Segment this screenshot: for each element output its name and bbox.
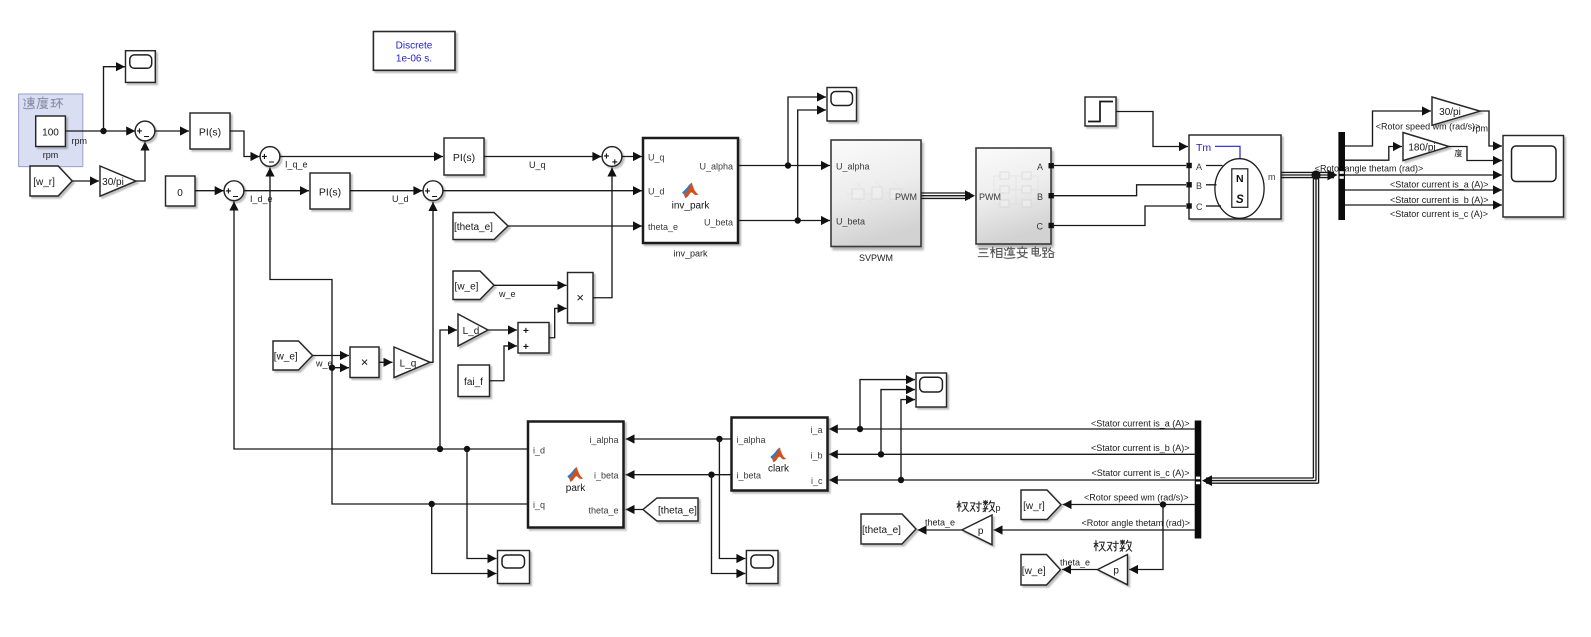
wire PI q out to sum5 (484, 156, 601, 158)
svg-text:+: + (424, 186, 430, 197)
wire is_b junction to scope3 port2 (881, 390, 915, 455)
svg-text:+: + (612, 158, 618, 169)
svg-text:theta_e: theta_e (1060, 558, 1090, 568)
inverter port square A (1049, 163, 1054, 168)
gain L_d (458, 314, 488, 346)
from tag [w_r] (30, 166, 72, 196)
svg-text:100: 100 (42, 128, 59, 139)
wire PI d out to sum4 (350, 190, 422, 192)
wire L_q up to sum4 minus input (430, 202, 433, 362)
wire junction up to scope1 (104, 67, 126, 131)
svg-text:+: + (136, 127, 142, 138)
gain p1 pole pairs (flipped) (962, 515, 992, 545)
svg-text:U_alpha: U_alpha (836, 162, 870, 172)
wire U_beta junction to scope2 (798, 110, 826, 221)
gain 180/pi (rad to deg) (1403, 133, 1449, 161)
wire bus1 thetam-meas to scope port3 (1345, 174, 1502, 176)
junction i_alpha to scope5 (716, 436, 722, 442)
wire [w_r] to gain 30/pi (72, 180, 99, 182)
svg-text:–: – (233, 191, 239, 202)
wire p2 to goto [w_e] (1062, 569, 1098, 571)
wire bus2 is_b to clark i_b (829, 453, 1195, 455)
gain p2 pole pairs (flipped) (1098, 555, 1128, 585)
svg-text:inv_park: inv_park (672, 201, 711, 212)
sum1 speed error (+-) (135, 121, 155, 142)
area frame 速度环 (speed loop panel) (19, 94, 83, 167)
svg-text:rpm: rpm (72, 136, 88, 146)
svg-text:SVPWM: SVPWM (859, 253, 893, 263)
wire [w_e] to product1 input1 (313, 355, 350, 357)
svg-text:×: × (361, 354, 369, 369)
svg-text:–: – (432, 191, 438, 202)
bus wire junction down to bus selector 2 (triple) (1312, 175, 1314, 478)
svg-text:U_beta: U_beta (836, 217, 865, 227)
wire product2 up to sum5 plus input (593, 168, 612, 298)
wire i_d junction up to gain L_d (440, 330, 457, 449)
wire gain 30/pi up to sum1 minus input (136, 142, 145, 182)
svg-text:<Stator current is_c (A)>: <Stator current is_c (A)> (1091, 468, 1189, 478)
wire fai_f to add block input2 (490, 346, 518, 381)
gain 30/pi (rad/s to rpm) (100, 166, 136, 196)
motor magnet rectangle N/S (1232, 169, 1248, 208)
svg-text:[theta_e]: [theta_e] (862, 525, 901, 536)
svg-text:w_e: w_e (498, 289, 516, 299)
wire U_alpha inv_park to SVPWM (738, 165, 830, 167)
block name 极对数 (2) (1094, 540, 1132, 551)
scope3 (current monitor) (916, 373, 947, 407)
svg-text:+: + (523, 342, 529, 353)
svg-text:i_b: i_b (810, 450, 822, 460)
wire p1 to goto [theta_e] (918, 529, 963, 531)
svg-text:inv_park: inv_park (673, 249, 708, 259)
motor rotor circle (1215, 159, 1264, 219)
svg-text:U_alpha: U_alpha (699, 162, 733, 172)
svg-text:<Rotor angle thetam (rad)>: <Rotor angle thetam (rad)> (1081, 518, 1190, 528)
wire sum5 to inv_park U_q input (622, 156, 642, 158)
svg-text:i_beta: i_beta (737, 471, 762, 481)
wire 0 to sum3 (195, 190, 224, 192)
svg-text:theta_e: theta_e (588, 505, 618, 515)
svg-text:[theta_e]: [theta_e] (658, 506, 697, 517)
wire sum4 to inv_park U_d input (443, 190, 642, 192)
svg-text:[w_r]: [w_r] (33, 177, 55, 188)
from tag [theta_e] inv_park (453, 213, 508, 240)
from tag [theta_e] park (643, 498, 698, 521)
svg-text:rpm: rpm (1473, 124, 1489, 134)
sum3 d-current error (+-) (224, 181, 244, 202)
sum2 q-current error (+-) (260, 147, 280, 168)
junction node on rpm wire (100, 128, 106, 134)
wire wm junction down to pole-pair gain p2 (1129, 505, 1163, 570)
svg-text:+: + (523, 326, 529, 337)
from tag [w_e] upper (453, 271, 494, 300)
wire park i_q feedback to sum2 (270, 168, 528, 505)
svg-text:B: B (1037, 192, 1043, 202)
wire bus1 is_a to scope port4 (1345, 189, 1502, 191)
svg-text:i_alpha: i_alpha (589, 435, 618, 445)
svg-text:C: C (1196, 202, 1203, 212)
svg-text:<Stator current is_c (A)>: <Stator current is_c (A)> (1390, 209, 1488, 219)
junction i_beta to scope5 (708, 472, 714, 478)
svg-text:N: N (1236, 173, 1244, 185)
junction wm to pole-pair gain (1160, 501, 1166, 507)
wire sum3 to PI(s) d-current controller (244, 190, 309, 192)
svg-text:U_d: U_d (648, 187, 665, 197)
svg-text:×: × (576, 290, 584, 305)
wire rpm reference to sum1 (65, 130, 135, 132)
svg-text:PI(s): PI(s) (319, 186, 341, 198)
subsystem block 三相逆变电路 (three-phase inverter) (976, 148, 1051, 244)
svg-text:clark: clark (768, 464, 790, 475)
svg-text:–: – (144, 131, 150, 142)
junction on U_alpha wire (785, 162, 791, 168)
wire bus2 wm to goto [w_r] (1063, 504, 1195, 506)
wire clark i_alpha to park (626, 438, 732, 440)
svg-text:<Rotor speed wm (rad/s)>: <Rotor speed wm (rad/s)> (1084, 493, 1189, 503)
svg-text:–: – (269, 157, 275, 168)
wire is_c junction to scope3 port3 (901, 400, 915, 480)
svg-text:i_q: i_q (533, 500, 545, 510)
wire 180/pi to scope port2 (1449, 147, 1502, 161)
svg-text:<Stator current is_b (A)>: <Stator current is_b (A)> (1091, 443, 1190, 453)
svg-text:p: p (978, 526, 984, 537)
PI controller PI(s) q-current loop (444, 138, 484, 175)
motor port square C (1186, 203, 1191, 208)
svg-text:m: m (1268, 172, 1276, 182)
physical wire B inverter to motor (1054, 185, 1186, 196)
svg-text:L_q: L_q (400, 358, 417, 369)
inverter port square C (1049, 223, 1054, 228)
wire bus2 is_a to clark i_a (829, 428, 1195, 430)
svg-text:A: A (1196, 162, 1202, 172)
step block (load torque) (1085, 97, 1116, 126)
bus selector 1 (vertical bar) (1338, 132, 1345, 220)
svg-text:PI(s): PI(s) (199, 126, 221, 138)
wire i_q junction down to scope4 port2 (432, 504, 497, 574)
wire [w_e] to product2 input1 (494, 284, 567, 286)
wire bus1 wm to gain 30/pi (right) (1345, 111, 1431, 146)
motor blue connection line (1215, 146, 1240, 159)
wire park i_d feedback to sum3 (234, 202, 528, 450)
MATLAB function block park (528, 422, 624, 528)
add block (L_d*i_d + fai_f) (518, 323, 549, 354)
svg-text:I_q_e: I_q_e (285, 160, 308, 170)
junction is_c to scope3 (898, 477, 904, 483)
svg-text:30/pi: 30/pi (102, 177, 124, 188)
constant block fai_f (flux) (458, 365, 490, 397)
wire L_d to add block (488, 329, 517, 331)
svg-text:i_alpha: i_alpha (737, 435, 766, 445)
svg-text:[w_r]: [w_r] (1023, 501, 1045, 512)
motor port square A (1186, 163, 1191, 168)
scope4 (i_d/i_q) (498, 551, 530, 584)
motor port square B (1186, 182, 1191, 187)
bus wire PWM SVPWM to inverter (triple line) (921, 192, 970, 194)
wire product1 to gain L_q (379, 361, 393, 363)
SVPWM faint internal preview (846, 182, 907, 204)
wire bus1 is_b to scope port5 (1345, 204, 1502, 206)
bus selector 2 (vertical bar) (1195, 421, 1202, 539)
svg-text:U_beta: U_beta (704, 218, 733, 228)
svg-text:PWM: PWM (979, 192, 1001, 202)
svg-text:i_c: i_c (811, 476, 823, 486)
svg-text:I_d_e: I_d_e (250, 194, 273, 204)
goto tag [w_r] (1021, 490, 1061, 520)
svg-text:PWM: PWM (895, 192, 917, 202)
svg-text:[theta_e]: [theta_e] (454, 222, 493, 233)
wire i_beta junction down to scope5 port2 (712, 475, 746, 574)
junction i_q to scope4 port2 (429, 501, 435, 507)
constant block 0 (d-current ref) (166, 176, 196, 206)
svg-text:i_beta: i_beta (594, 471, 619, 481)
svg-text:C: C (1037, 222, 1044, 232)
wire bus2 is_c to clark i_c (829, 479, 1195, 481)
bus junction node (1311, 170, 1320, 179)
svg-text:+: + (261, 152, 267, 163)
scope1 (speed display) (126, 51, 156, 83)
svg-text:<Rotor speed wm (rad/s)>: <Rotor speed wm (rad/s)> (1376, 122, 1481, 132)
goto tag [theta_e] (861, 514, 916, 544)
svg-text:w_e: w_e (315, 359, 333, 369)
junction i_q to product1 (329, 365, 335, 371)
scope6 (main monitor) (1503, 136, 1564, 218)
PI controller PI(s) d-current loop (310, 173, 350, 209)
scope5 (i_alpha/i_beta) (746, 551, 778, 584)
wire sum1 to PI speed controller (155, 130, 189, 132)
subsystem block SVPWM (831, 140, 921, 247)
product block 2 (w_e x flux) (568, 273, 594, 324)
gain L_q (394, 347, 430, 378)
wire clark i_beta to park (626, 474, 732, 476)
svg-text:<Stator current is_a (A)>: <Stator current is_a (A)> (1390, 180, 1489, 190)
svg-text:Discrete: Discrete (396, 41, 433, 52)
junction on U_beta wire (795, 217, 801, 223)
svg-text:1e-06 s.: 1e-06 s. (396, 54, 432, 65)
gain 30/pi right (rad/s to rpm) (1432, 97, 1480, 125)
PMSM motor block (1189, 135, 1281, 219)
junction is_a to scope3 (857, 426, 863, 432)
svg-text:Tm: Tm (1196, 142, 1211, 154)
svg-text:p: p (996, 503, 1001, 513)
svg-text:fai_f: fai_f (464, 377, 483, 388)
svg-text:[w_e]: [w_e] (1022, 566, 1046, 577)
wire i_q junction to product1 input2 (332, 367, 349, 369)
MATLAB function block inv_park (643, 138, 738, 243)
MATLAB function block clark (732, 418, 828, 491)
svg-text:B: B (1196, 181, 1202, 191)
svg-text:S: S (1236, 194, 1244, 206)
svg-text:U_d: U_d (392, 194, 409, 204)
sample time block Discrete 1e-06 s. (373, 32, 455, 71)
wire i_d junction down to scope4 port1 (467, 449, 497, 559)
wire sum2 to PI(s) q-current controller (280, 156, 443, 158)
wire U_alpha junction to scope2 (788, 97, 826, 166)
svg-text:U_q: U_q (529, 160, 546, 170)
goto tag [w_e] (1021, 555, 1061, 586)
inverter port square B (1049, 193, 1054, 198)
junction i_d to L_d path (437, 446, 443, 452)
svg-text:i_a: i_a (810, 425, 822, 435)
wire add to product2 input2 (549, 308, 567, 337)
svg-text:p: p (1113, 566, 1119, 577)
svg-text:U_q: U_q (648, 152, 665, 162)
junction i_d to scope4 (464, 446, 470, 452)
svg-text:[w_e]: [w_e] (274, 352, 298, 363)
wire 30/pi to scope port1 (1480, 111, 1502, 146)
wire i_alpha junction down to scope5 port1 (719, 439, 745, 559)
constant block 100 (rpm reference) (36, 116, 66, 147)
svg-text:<Stator current is_a (A)>: <Stator current is_a (A)> (1091, 418, 1190, 428)
wire PI speed out to sum2 (230, 131, 260, 157)
sum4 U_d decouple (+-) (423, 181, 443, 202)
svg-text:+: + (225, 186, 231, 197)
wire [theta_e] to park theta_e input (626, 509, 644, 511)
PI controller PI(s) speed loop (190, 113, 230, 149)
wire step to motor Tm (1116, 112, 1188, 147)
wire [theta_e] to inv_park theta_e input (508, 225, 642, 227)
svg-text:theta_e: theta_e (925, 517, 955, 527)
junction is_b to scope3 (878, 451, 884, 457)
svg-text:i_d: i_d (533, 445, 545, 455)
svg-text:theta_e: theta_e (648, 222, 678, 232)
svg-text:L_d: L_d (463, 326, 480, 337)
svg-text:A: A (1037, 162, 1043, 172)
svg-text:[w_e]: [w_e] (455, 281, 479, 292)
svg-text:rpm: rpm (43, 150, 59, 160)
from tag [w_e] left (273, 341, 313, 370)
svg-text:<Rotor angle thetam (rad)>: <Rotor angle thetam (rad)> (1315, 164, 1424, 174)
svg-text:+: + (603, 152, 609, 163)
physical wire A inverter to motor (1054, 165, 1186, 167)
sum5 U_q decouple (++) (602, 147, 622, 169)
wire bus1 thetam to gain 180/pi (1345, 147, 1402, 161)
signal label 度 (degrees) (1455, 149, 1462, 156)
wire U_beta inv_park to SVPWM (738, 220, 830, 222)
svg-text:180/pi: 180/pi (1408, 143, 1435, 154)
wire is_a junction to scope3 port1 (860, 380, 915, 429)
inverter faint internal preview (994, 172, 1038, 207)
block name 极对数p (957, 501, 1001, 513)
wire bus2 thetam to pole-pair gain p1 (994, 529, 1195, 531)
block name 三相逆变电路 (978, 246, 1054, 258)
scope2 (U_alpha/U_beta) (827, 88, 857, 122)
svg-text:30/pi: 30/pi (1439, 107, 1461, 118)
svg-text:PI(s): PI(s) (453, 152, 475, 164)
bus wire m motor to bus selector 1 (triple) (1281, 171, 1334, 173)
physical wire C inverter to motor (1054, 206, 1186, 226)
product block 1 (w_e x i_q) (350, 347, 379, 378)
svg-text:0: 0 (177, 188, 183, 199)
svg-text:park: park (566, 483, 586, 494)
svg-text:<Stator current is_b (A)>: <Stator current is_b (A)> (1390, 195, 1489, 205)
panel title 速度环 (24, 97, 63, 109)
